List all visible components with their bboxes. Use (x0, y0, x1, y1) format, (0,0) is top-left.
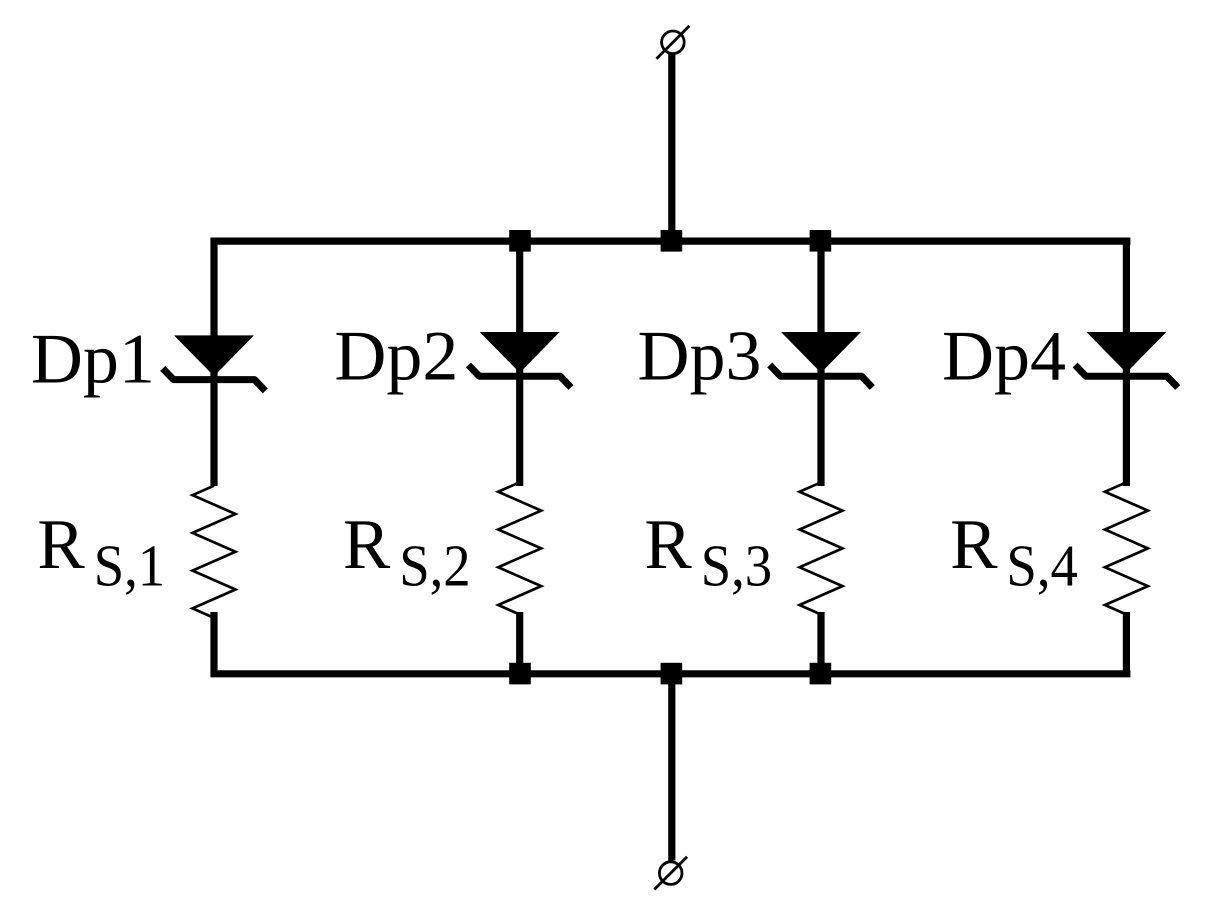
svg-text:S,4: S,4 (1006, 533, 1078, 599)
svg-text:Dp1: Dp1 (31, 321, 155, 399)
svg-text:S,2: S,2 (399, 533, 471, 599)
svg-text:S,1: S,1 (94, 533, 166, 599)
svg-text:R: R (343, 506, 391, 584)
svg-text:Dp4: Dp4 (942, 317, 1066, 395)
svg-text:S,3: S,3 (701, 533, 773, 599)
svg-text:R: R (37, 506, 85, 584)
svg-text:Dp3: Dp3 (638, 317, 762, 395)
svg-text:R: R (644, 506, 692, 584)
svg-text:R: R (950, 506, 998, 584)
svg-text:Dp2: Dp2 (334, 317, 458, 395)
